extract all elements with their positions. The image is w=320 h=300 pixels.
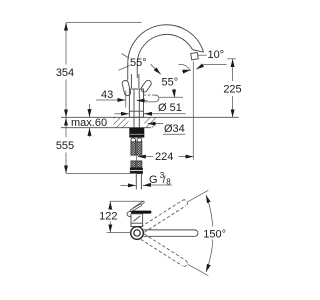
svg-text:Ø34: Ø34 bbox=[164, 123, 185, 135]
svg-text:225: 225 bbox=[223, 84, 241, 96]
svg-text:555: 555 bbox=[56, 140, 74, 152]
svg-text:122: 122 bbox=[99, 211, 117, 223]
svg-text:55°: 55° bbox=[130, 57, 147, 69]
svg-text:/: / bbox=[163, 174, 166, 186]
svg-text:max.60: max.60 bbox=[71, 117, 107, 129]
svg-text:150°: 150° bbox=[203, 229, 226, 241]
svg-text:354: 354 bbox=[56, 67, 74, 79]
svg-text:55°: 55° bbox=[162, 77, 179, 89]
svg-text:43: 43 bbox=[101, 89, 113, 101]
svg-text:Ø 51: Ø 51 bbox=[158, 102, 182, 114]
svg-text:G: G bbox=[149, 174, 158, 186]
svg-text:224: 224 bbox=[155, 151, 173, 163]
svg-text:10°: 10° bbox=[208, 49, 225, 61]
